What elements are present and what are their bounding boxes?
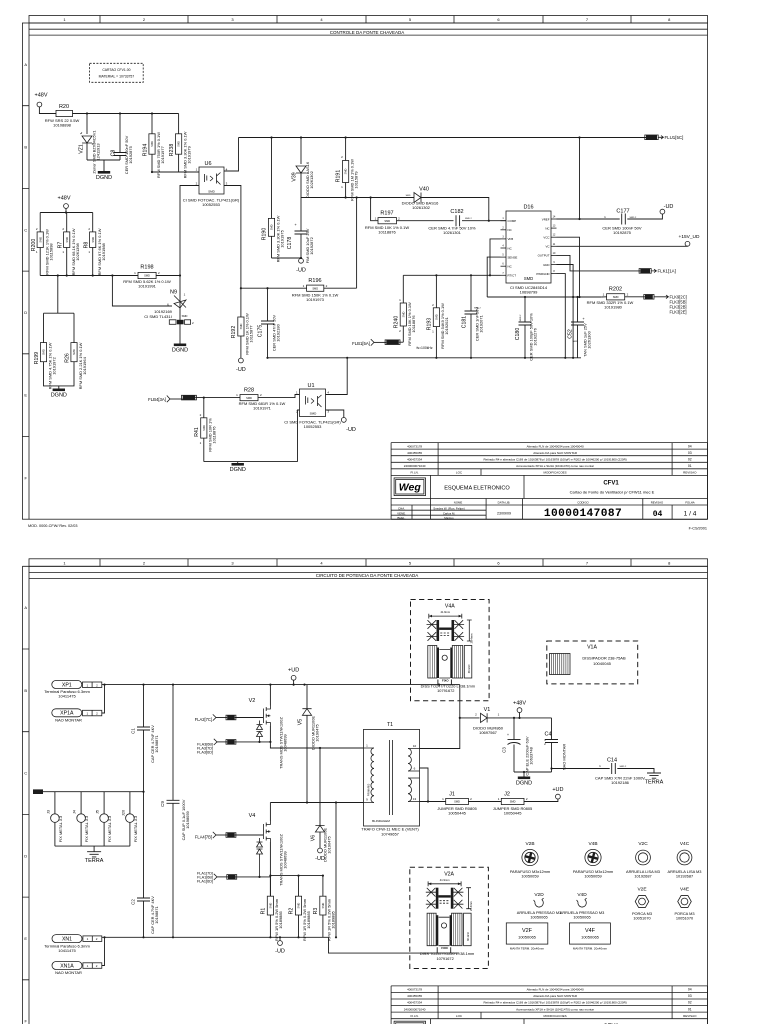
svg-text:J3: J3 bbox=[46, 810, 50, 814]
diode V1 bbox=[481, 713, 488, 722]
svg-text:Retirado R4 e alterados C169 d: Retirado R4 e alterados C169 de 10163878… bbox=[483, 1001, 626, 1005]
wire R238 top bbox=[178, 114, 180, 134]
wire C8 branch bbox=[119, 114, 121, 153]
svg-text:10192875: 10192875 bbox=[613, 230, 632, 235]
svg-text:1: 1 bbox=[366, 744, 368, 748]
wire to R28 bbox=[195, 397, 240, 399]
svg-text:8: 8 bbox=[553, 270, 555, 273]
svg-text:-UD: -UD bbox=[315, 856, 325, 862]
svg-text:10: 10 bbox=[553, 252, 556, 255]
svg-text:V2: V2 bbox=[249, 698, 256, 704]
svg-text:SENSE: SENSE bbox=[508, 255, 518, 259]
wire C180 bottom bbox=[524, 325, 526, 358]
wire V6 bottom bbox=[319, 832, 321, 848]
wire earth rail bbox=[55, 846, 130, 852]
wire V4 drain bbox=[269, 803, 271, 822]
svg-text:10115877: 10115877 bbox=[249, 325, 254, 342]
wire U1 pin4 to bus bbox=[326, 358, 348, 395]
svg-text:400455055: 400455055 bbox=[407, 994, 422, 998]
resistor R202 bbox=[607, 294, 625, 300]
svg-text:10191980: 10191980 bbox=[604, 304, 623, 309]
svg-text:REVISAO: REVISAO bbox=[683, 1014, 697, 1018]
wire V2 source to T1 pin1 bbox=[270, 726, 363, 748]
svg-text:R2: R2 bbox=[289, 908, 295, 915]
svg-text:03: 03 bbox=[688, 994, 692, 998]
svg-text:V4E: V4E bbox=[680, 887, 689, 893]
svg-text:F: F bbox=[24, 1019, 27, 1024]
wire C52 bottom bbox=[577, 325, 579, 358]
svg-text:VREF: VREF bbox=[542, 217, 550, 221]
wire R192 bottom bbox=[240, 336, 242, 358]
svg-text:R238: R238 bbox=[169, 144, 175, 157]
svg-text:SMD: SMD bbox=[239, 323, 243, 329]
svg-text:V4D: V4D bbox=[577, 892, 587, 898]
svg-text:9: 9 bbox=[366, 798, 368, 802]
svg-text:1: 1 bbox=[236, 393, 238, 397]
svg-text:+: + bbox=[294, 222, 297, 227]
svg-text:SMD 2: SMD 2 bbox=[520, 314, 522, 321]
svg-text:10050059: 10050059 bbox=[521, 874, 538, 879]
svg-text:SMD: SMD bbox=[269, 903, 273, 909]
ground DGND (N9) bbox=[174, 344, 186, 347]
svg-text:10192276: 10192276 bbox=[533, 327, 538, 345]
svg-text:5: 5 bbox=[409, 17, 412, 22]
svg-text:SMD: SMD bbox=[42, 349, 46, 355]
wire V1 to +48V node bbox=[487, 717, 551, 719]
flag FLU1[5C] output bbox=[646, 135, 657, 140]
svg-text:10192180: 10192180 bbox=[276, 323, 281, 341]
winding T1 secondary B bbox=[408, 778, 412, 802]
wire C4 bottom bbox=[551, 743, 553, 773]
svg-text:SMD: SMD bbox=[573, 341, 578, 343]
svg-text:BLINDAGEM: BLINDAGEM bbox=[372, 819, 390, 823]
wire C181 top bbox=[470, 275, 472, 311]
svg-text:2400000071040: 2400000071040 bbox=[404, 1007, 426, 1011]
svg-text:V4F: V4F bbox=[585, 928, 596, 934]
svg-text:2: 2 bbox=[62, 227, 64, 231]
svg-text:R20: R20 bbox=[59, 104, 69, 110]
svg-text:VFB: VFB bbox=[508, 237, 514, 241]
svg-text:Alterado FLN de 10040034 para: Alterado FLN de 10040034 para 10040040 bbox=[527, 444, 584, 448]
svg-text:V2B: V2B bbox=[525, 841, 534, 847]
svg-text:V5: V5 bbox=[297, 719, 303, 725]
svg-text:SMD 2: SMD 2 bbox=[620, 766, 627, 768]
svg-text:10191971: 10191971 bbox=[253, 405, 272, 410]
svg-text:1: 1 bbox=[87, 964, 89, 968]
svg-text:Snedes W. (Ron. Felipe): Snedes W. (Ron. Felipe) bbox=[433, 506, 465, 510]
svg-text:10052553: 10052553 bbox=[202, 202, 221, 207]
svg-text:FLA4[7B]: FLA4[7B] bbox=[195, 835, 212, 840]
wire VZ1 to bottom bbox=[86, 143, 88, 160]
svg-text:1: 1 bbox=[375, 217, 377, 221]
svg-text:1: 1 bbox=[442, 797, 444, 801]
svg-text:XN1: XN1 bbox=[62, 936, 72, 942]
svg-text:10191988: 10191988 bbox=[101, 242, 106, 260]
wire VZ1 branch bbox=[86, 114, 88, 135]
svg-text:MANTA TERM. 20x40mm: MANTA TERM. 20x40mm bbox=[573, 947, 608, 951]
svg-text:10051070: 10051070 bbox=[633, 916, 651, 921]
capacitor C182 bbox=[456, 215, 460, 226]
svg-text:FIX METAL 3.3: FIX METAL 3.3 bbox=[84, 815, 89, 842]
wire T1 pin6 jog bbox=[420, 768, 429, 802]
wire J5 stub bbox=[103, 792, 105, 846]
svg-text:R194: R194 bbox=[143, 144, 149, 157]
jumper J2 bbox=[501, 798, 524, 804]
svg-text:25.4mm: 25.4mm bbox=[470, 633, 474, 643]
svg-text:10192687: 10192687 bbox=[634, 874, 651, 879]
ground TERRA (C14) bbox=[647, 773, 661, 778]
wire R240 top bbox=[402, 275, 404, 303]
svg-text:R196: R196 bbox=[308, 278, 321, 284]
svg-text:5: 5 bbox=[502, 254, 504, 257]
svg-text:MATERIAL = 10733757: MATERIAL = 10733757 bbox=[99, 75, 135, 79]
svg-text:10633748: 10633748 bbox=[529, 746, 534, 764]
wire FLA3 to source net bbox=[235, 741, 271, 743]
svg-text:V39: V39 bbox=[292, 172, 298, 181]
wire C52 top bbox=[577, 297, 579, 322]
wire VFB link bbox=[490, 239, 501, 275]
wire V2 drain bbox=[269, 685, 271, 706]
svg-text:Acrescentado XP1A e SH1A (1041: Acrescentado XP1A e SH1A (10411470) como… bbox=[516, 1007, 594, 1011]
wire FLA2 to pad bbox=[216, 717, 227, 719]
svg-text:V4: V4 bbox=[249, 813, 256, 819]
svg-text:2: 2 bbox=[96, 683, 98, 687]
dashed box CARTAO CFV1.00 bbox=[90, 63, 144, 82]
wire R28 to U1 pin1 bbox=[258, 395, 300, 398]
svg-text:SMD: SMD bbox=[435, 314, 439, 320]
svg-text:R240: R240 bbox=[394, 316, 400, 329]
wire pin9 to -UD bus bbox=[335, 803, 337, 938]
svg-text:MODIFICACOES: MODIFICACOES bbox=[544, 1014, 567, 1018]
svg-text:COMP: COMP bbox=[508, 219, 517, 223]
svg-text:-UD: -UD bbox=[236, 367, 246, 373]
wire R3 bottom bbox=[322, 915, 324, 937]
svg-text:2: 2 bbox=[470, 797, 472, 801]
svg-text:C9: C9 bbox=[160, 801, 165, 807]
svg-text:V40: V40 bbox=[419, 187, 429, 193]
winding T1 secondary A bbox=[408, 749, 411, 772]
svg-text:FI.LN.: FI.LN. bbox=[411, 1014, 419, 1018]
resistor R197 bbox=[378, 218, 397, 224]
svg-text:1: 1 bbox=[341, 185, 343, 189]
svg-text:C1: C1 bbox=[131, 728, 136, 734]
svg-text:Retirado R4 e alterados C169 d: Retirado R4 e alterados C169 de 10163878… bbox=[483, 457, 626, 461]
wire C181 bottom bbox=[470, 314, 472, 358]
svg-text:8: 8 bbox=[668, 560, 671, 565]
svg-text:R1: R1 bbox=[261, 908, 267, 915]
node SH1 shield pad bbox=[33, 789, 43, 794]
svg-text:10050065: 10050065 bbox=[518, 935, 537, 940]
svg-text:2: 2 bbox=[96, 937, 98, 941]
svg-text:10198871: 10198871 bbox=[154, 906, 159, 924]
column ruler band bbox=[29, 559, 708, 567]
wire +48V stub bbox=[519, 713, 521, 718]
svg-text:DGND: DGND bbox=[51, 393, 67, 399]
wire FLA2 to gate bbox=[235, 717, 264, 719]
node FLB1 smd pad bbox=[386, 340, 399, 345]
svg-text:SMD: SMD bbox=[72, 349, 76, 355]
svg-text:FIXO: FIXO bbox=[442, 678, 449, 682]
svg-text:7: 7 bbox=[586, 17, 589, 22]
terminal +UD (top) bbox=[291, 675, 296, 680]
svg-text:V2D: V2D bbox=[534, 892, 544, 898]
svg-text:13: 13 bbox=[553, 225, 556, 228]
svg-text:10191972: 10191972 bbox=[52, 357, 57, 375]
wire C9 bottom bbox=[172, 803, 174, 937]
svg-text:41.9mm: 41.9mm bbox=[440, 610, 450, 614]
signature rows bbox=[391, 505, 486, 519]
svg-text:V1A: V1A bbox=[587, 645, 597, 651]
wire N9 bottom bbox=[179, 308, 181, 344]
ground DGND (C3/C4) bbox=[518, 777, 530, 780]
svg-text:10411475: 10411475 bbox=[58, 948, 76, 953]
svg-text:10261398: 10261398 bbox=[75, 242, 80, 260]
svg-text:FIXO: FIXO bbox=[441, 946, 448, 950]
svg-text:-UD: -UD bbox=[346, 427, 356, 433]
wire C1 top bbox=[143, 685, 145, 727]
svg-text:1: 1 bbox=[134, 271, 136, 275]
svg-text:C2: C2 bbox=[131, 899, 136, 905]
op-amp U1 optocoupler TLP421 bbox=[300, 389, 326, 417]
wire C3 bottom bbox=[513, 745, 515, 773]
svg-text:41.9mm: 41.9mm bbox=[440, 878, 450, 882]
svg-text:10048699: 10048699 bbox=[282, 851, 287, 869]
wire T1 core bbox=[390, 740, 393, 815]
wire VREF to top bus bbox=[557, 138, 580, 220]
svg-text:FIX METAL 3.3: FIX METAL 3.3 bbox=[133, 815, 138, 842]
terminal +UD (secondary) bbox=[556, 794, 561, 799]
svg-text:10190475: 10190475 bbox=[315, 723, 320, 741]
wire R240 bottom bbox=[402, 326, 404, 342]
op-amp D16 PWM controller UC2845 bbox=[506, 211, 551, 283]
wire FLA4 to gate bbox=[235, 834, 264, 836]
svg-text:02: 02 bbox=[688, 457, 692, 461]
svg-text:C182: C182 bbox=[450, 209, 463, 215]
svg-text:1: 1 bbox=[303, 284, 305, 288]
svg-text:2: 2 bbox=[36, 227, 38, 231]
header labels row bbox=[431, 499, 672, 520]
svg-text:1: 1 bbox=[498, 797, 500, 801]
flag FLK1[1A] output bbox=[640, 269, 650, 274]
svg-text:CONTROLE DA FONTE CHAVEADA: CONTROLE DA FONTE CHAVEADA bbox=[330, 30, 404, 35]
terminal -UD (R192) bbox=[239, 358, 244, 363]
wire C3 top bbox=[513, 718, 515, 740]
wire J20 stub bbox=[129, 792, 131, 846]
svg-text:6: 6 bbox=[497, 17, 500, 22]
wire OUTPUT to flag bbox=[557, 255, 641, 271]
wire VCC down bbox=[557, 237, 580, 297]
svg-text:R8: R8 bbox=[84, 242, 90, 249]
svg-text:J2: J2 bbox=[504, 792, 510, 798]
svg-text:10192071: 10192071 bbox=[479, 315, 484, 333]
wire VREF to C177 bbox=[580, 218, 620, 220]
wire sense bus bbox=[487, 296, 601, 298]
svg-text:FOLHA: FOLHA bbox=[685, 501, 694, 505]
svg-text:10191979: 10191979 bbox=[187, 146, 192, 164]
wire T1 pin13 to J1 bbox=[420, 801, 446, 803]
assembly dashed box V4A heatsink+fan bbox=[411, 600, 490, 701]
svg-text:PRIMARIO: PRIMARIO bbox=[368, 784, 371, 796]
svg-text:4: 4 bbox=[320, 560, 323, 565]
svg-text:SMD: SMD bbox=[510, 800, 516, 804]
svg-text:1: 1 bbox=[88, 250, 90, 254]
svg-text:14: 14 bbox=[553, 216, 556, 219]
svg-text:10697567: 10697567 bbox=[479, 730, 498, 735]
svg-text:38.1mm: 38.1mm bbox=[468, 664, 471, 673]
svg-text:NOME: NOME bbox=[454, 501, 463, 505]
svg-text:1: 1 bbox=[200, 441, 202, 445]
connector XN1 bbox=[52, 935, 82, 943]
wire -UD stub bbox=[279, 937, 281, 940]
svg-text:2: 2 bbox=[88, 227, 90, 231]
svg-text:2: 2 bbox=[399, 329, 401, 333]
wire R2 top bbox=[298, 876, 300, 897]
transformer T1 bbox=[364, 729, 420, 826]
wire PWRGND down bbox=[557, 274, 566, 358]
svg-text:10192687: 10192687 bbox=[676, 874, 693, 879]
svg-text:SMD: SMD bbox=[310, 412, 318, 416]
svg-text:R192: R192 bbox=[231, 326, 237, 339]
svg-text:2: 2 bbox=[96, 712, 98, 716]
wire V6 top bbox=[319, 748, 321, 825]
svg-text:Markus: Markus bbox=[444, 516, 454, 520]
title block table bbox=[391, 443, 707, 520]
svg-text:1 / 4: 1 / 4 bbox=[684, 511, 697, 518]
svg-text:PWRGND: PWRGND bbox=[536, 272, 549, 276]
svg-text:1: 1 bbox=[432, 330, 434, 334]
svg-text:04: 04 bbox=[688, 444, 692, 448]
svg-text:10118876: 10118876 bbox=[378, 230, 396, 235]
wire VC to +15V bbox=[557, 245, 688, 247]
svg-text:V6: V6 bbox=[310, 835, 316, 841]
svg-text:FIX METAL 3.3: FIX METAL 3.3 bbox=[58, 815, 63, 842]
wire R8 top bbox=[92, 213, 94, 232]
svg-text:FIX METAL 3.3: FIX METAL 3.3 bbox=[107, 815, 112, 842]
svg-text:D: D bbox=[24, 853, 27, 858]
svg-text:400073178: 400073178 bbox=[407, 444, 422, 448]
svg-text:2: 2 bbox=[192, 321, 194, 325]
svg-text:C: C bbox=[24, 771, 27, 776]
svg-text:1: 1 bbox=[544, 738, 546, 742]
svg-text:10050065: 10050065 bbox=[530, 915, 547, 920]
assembly dashed box V1A heatsink bbox=[547, 641, 638, 684]
page frame outer border bbox=[22, 566, 707, 1024]
svg-text:FLB1[5A]: FLB1[5A] bbox=[352, 341, 370, 346]
svg-text:SMD: SMD bbox=[65, 237, 69, 243]
terminal -UD (C178) bbox=[299, 258, 304, 263]
svg-text:11: 11 bbox=[553, 243, 556, 246]
svg-text:2: 2 bbox=[398, 217, 400, 221]
wire R200 bottom bbox=[39, 248, 41, 276]
svg-text:1: 1 bbox=[86, 712, 88, 716]
svg-text:V4B: V4B bbox=[588, 841, 597, 847]
svg-text:2: 2 bbox=[96, 964, 98, 968]
svg-text:400073178: 400073178 bbox=[407, 988, 422, 992]
svg-text:Acrescentado XP1A e SH1A (1041: Acrescentado XP1A e SH1A (10411470) como… bbox=[516, 464, 594, 468]
wire V5 top bbox=[306, 685, 308, 709]
wire FLB1 to pad bbox=[374, 341, 386, 343]
svg-text:R190: R190 bbox=[262, 228, 268, 241]
title block table bbox=[391, 986, 707, 1019]
svg-text:1: 1 bbox=[498, 713, 500, 717]
svg-text:fs=100kHz: fs=100kHz bbox=[416, 346, 432, 350]
svg-text:25.4mm: 25.4mm bbox=[469, 901, 473, 911]
svg-text:R3: R3 bbox=[313, 908, 319, 915]
svg-text:VCC: VCC bbox=[543, 236, 549, 240]
row ruler letters bbox=[28, 23, 30, 519]
connector XN1A (nao montar) bbox=[52, 962, 82, 970]
svg-text:8: 8 bbox=[668, 17, 671, 22]
wire R7 top bbox=[66, 213, 68, 232]
svg-text:CARTAO CFV1.00: CARTAO CFV1.00 bbox=[102, 68, 130, 72]
column ruler band bbox=[29, 16, 708, 24]
wire XP1A link bbox=[102, 685, 105, 713]
svg-text:OUTPUT: OUTPUT bbox=[538, 254, 550, 258]
svg-text:FLA3[6D]: FLA3[6D] bbox=[197, 751, 213, 755]
wire V40 to COMP vert bbox=[421, 198, 489, 221]
wire R2 bottom bbox=[298, 915, 300, 937]
svg-text:NC: NC bbox=[545, 226, 549, 230]
ground TERRA (standoffs) bbox=[87, 852, 101, 857]
svg-text:SMD: SMD bbox=[202, 425, 206, 431]
wire C4 to C14 bbox=[552, 768, 610, 770]
svg-text:04: 04 bbox=[688, 988, 692, 992]
svg-text:10791672: 10791672 bbox=[437, 688, 454, 693]
wire divider top rail bbox=[40, 212, 92, 214]
svg-text:FI.LN.: FI.LN. bbox=[411, 471, 419, 475]
svg-text:SMD: SMD bbox=[177, 141, 181, 147]
wire C14 to TERRA bbox=[617, 769, 654, 774]
wire R191 bottom bbox=[345, 183, 347, 198]
svg-text:C181: C181 bbox=[461, 316, 467, 329]
wire V5 bottom bbox=[306, 715, 308, 802]
svg-text:SMD: SMD bbox=[182, 314, 188, 318]
wire C177 to -UD bbox=[627, 214, 662, 219]
wire R190 top bbox=[271, 138, 273, 219]
svg-text:6: 6 bbox=[414, 767, 416, 771]
svg-text:VC: VC bbox=[545, 245, 549, 249]
svg-text:2: 2 bbox=[143, 17, 146, 22]
wire branch to R196 bbox=[356, 198, 358, 289]
svg-text:FLA2[7C]: FLA2[7C] bbox=[195, 717, 212, 722]
svg-text:FLK1[1A]: FLK1[1A] bbox=[658, 269, 676, 274]
wire +48V to divider rail bbox=[65, 208, 67, 212]
svg-text:1: 1 bbox=[296, 391, 298, 395]
wire R190 bottom bbox=[271, 236, 273, 258]
svg-text:-UD: -UD bbox=[664, 204, 674, 210]
resistor R28 bbox=[240, 395, 258, 401]
wire J1 to J2 bbox=[468, 801, 501, 803]
svg-text:+: + bbox=[507, 733, 509, 737]
svg-text:10411475: 10411475 bbox=[58, 693, 76, 698]
hardware V2F thermal pad bbox=[506, 923, 548, 944]
wire C3/C4 ground rail bbox=[514, 772, 552, 777]
wire VZ1-C8 ground rail bbox=[87, 160, 120, 171]
wire R1 top bbox=[269, 876, 271, 897]
svg-text:SMD: SMD bbox=[401, 311, 405, 317]
svg-text:10051070: 10051070 bbox=[676, 916, 694, 921]
wire J4 stub bbox=[80, 792, 82, 846]
svg-text:DGND: DGND bbox=[230, 467, 246, 473]
hardware V4F thermal pad bbox=[570, 923, 611, 944]
svg-text:R202: R202 bbox=[609, 287, 622, 293]
wire R41 bottom bbox=[203, 438, 205, 462]
svg-text:NAO MONTAR: NAO MONTAR bbox=[55, 718, 82, 723]
jumper J1 bbox=[446, 798, 469, 804]
wire C175 bottom bbox=[267, 324, 269, 358]
svg-text:4: 4 bbox=[320, 17, 323, 22]
svg-text:1: 1 bbox=[36, 250, 38, 254]
